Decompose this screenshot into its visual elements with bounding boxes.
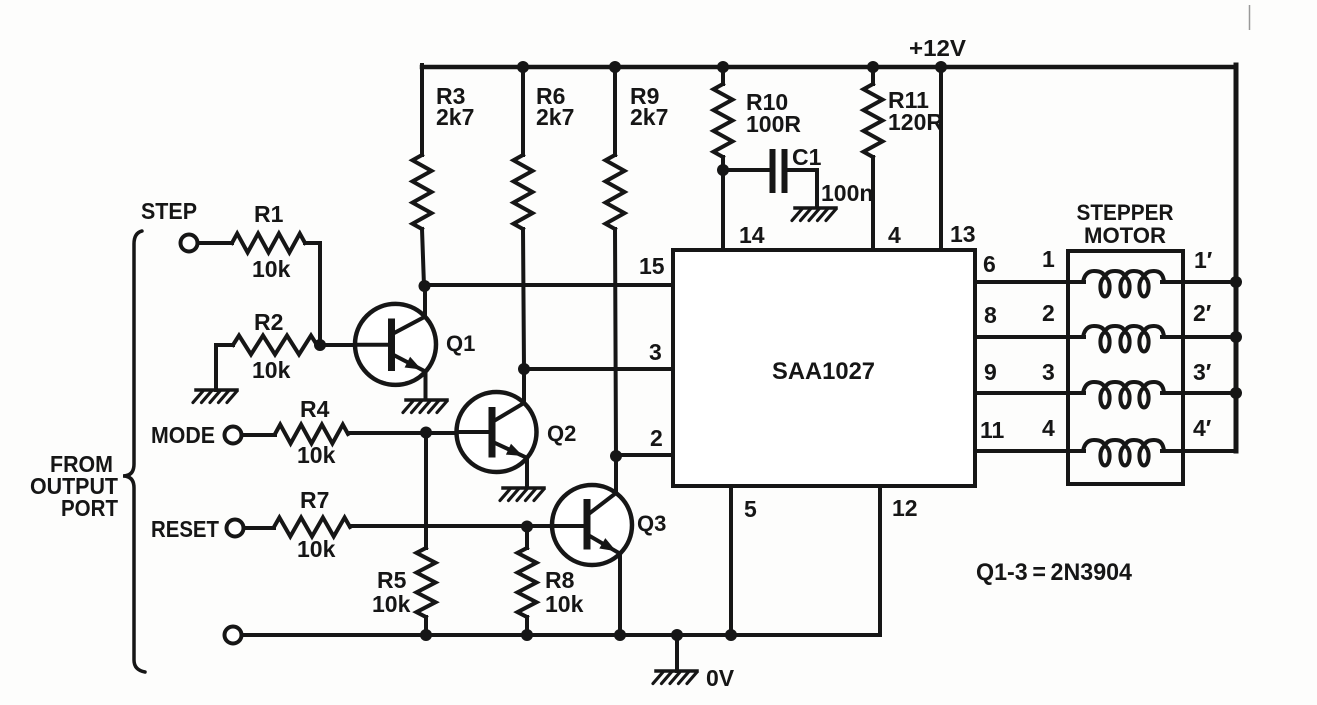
label pin 15 [639, 253, 665, 279]
wire pin 8 to winding 2 [975, 335, 1068, 339]
svg-text:12: 12 [892, 495, 918, 521]
label Q3 [637, 511, 666, 536]
svg-text:100n: 100n [821, 180, 873, 206]
inductor winding 2 [1068, 326, 1183, 352]
label 0V [706, 665, 735, 691]
resistor R10 [714, 84, 733, 157]
inductor winding 1 [1068, 271, 1183, 297]
node 0V junction [671, 629, 683, 641]
svg-text:10k: 10k [372, 591, 411, 617]
label R8 10k [545, 591, 584, 617]
capacitor C1 [773, 152, 785, 190]
wire right supply rail [1234, 65, 1239, 451]
svg-text:120R: 120R [888, 109, 943, 135]
node rail 2' [1230, 331, 1242, 343]
svg-text:PORT: PORT [61, 495, 118, 521]
label 4' [1193, 415, 1212, 441]
label pin 9 [984, 359, 997, 385]
label 3' [1193, 359, 1212, 385]
svg-text:1′: 1′ [1194, 247, 1213, 273]
svg-text:C1: C1 [792, 144, 822, 170]
svg-text:2k7: 2k7 [436, 104, 474, 130]
svg-text:STEPPER: STEPPER [1077, 200, 1174, 225]
svg-text:MOTOR: MOTOR [1084, 223, 1166, 248]
ground Q2 emitter [500, 488, 544, 501]
wire pin 12 [878, 486, 882, 635]
node C1 junction [717, 164, 729, 176]
op-amp U1 SAA1027 body [673, 250, 975, 486]
wire R8 top [525, 527, 529, 548]
label R10 100R [746, 89, 801, 137]
svg-text:0V: 0V [706, 665, 735, 691]
wire R9 column top [613, 67, 617, 155]
transistor Q1 [355, 286, 436, 399]
label winding 4 [1042, 415, 1055, 441]
inductor winding 3 [1068, 382, 1183, 408]
svg-text:MODE: MODE [151, 422, 215, 448]
label R4 [300, 396, 330, 422]
svg-text:2: 2 [650, 425, 663, 451]
label STEP [141, 198, 197, 224]
svg-text:10k: 10k [297, 536, 336, 562]
node Q3 emitter bottom [614, 629, 626, 641]
wire R6 to Q2 collector node [523, 229, 524, 369]
label R5 [377, 567, 407, 593]
svg-text:4: 4 [888, 222, 901, 248]
node RESET/R8 junction [521, 521, 533, 533]
wire pin 15 [424, 283, 673, 287]
svg-text:5: 5 [744, 496, 757, 522]
node R8 bottom [521, 629, 533, 641]
wire R9 to Q3 collector node [615, 229, 616, 456]
label RESET [151, 516, 219, 542]
svg-text:Q1-3 = 2N3904: Q1-3 = 2N3904 [976, 559, 1133, 586]
label +12V [909, 35, 967, 61]
label R2 10k [252, 357, 291, 383]
wire winding 1 to rail [1183, 280, 1236, 284]
svg-text:R2: R2 [254, 309, 283, 335]
label pin 4 [888, 222, 901, 248]
label R6 2k7 [536, 83, 574, 130]
wire 0V stub [675, 635, 679, 671]
label R8 [545, 567, 575, 593]
terminal MODE [225, 427, 242, 444]
label pin 14 [739, 222, 765, 248]
wire R2 ground leg [216, 345, 233, 390]
label Q1 [446, 331, 475, 356]
svg-text:R8: R8 [545, 567, 575, 593]
wire R5 top [424, 433, 428, 548]
transistor Q2 [457, 369, 537, 487]
node R9 top junction [609, 61, 621, 73]
resistor R5 [417, 548, 436, 617]
wire pin 6 to winding 1 [975, 280, 1068, 284]
svg-text:SAA1027: SAA1027 [772, 358, 875, 385]
label R3 2k7 [436, 83, 474, 130]
ground Q1 emitter [403, 400, 447, 413]
node R10 top junction [717, 61, 729, 73]
label R7 [300, 487, 329, 513]
label 1' [1194, 247, 1213, 273]
terminal RESET [227, 520, 244, 537]
motor box [1068, 251, 1183, 484]
resistor R1 [232, 234, 305, 253]
label MODE [151, 422, 215, 448]
terminal common [225, 627, 242, 644]
label pin 13 [950, 221, 976, 247]
wire R10 column top [721, 65, 725, 84]
wire winding 2 to rail [1183, 335, 1236, 339]
node Q1 collector / pin15 [419, 280, 431, 292]
svg-text:2: 2 [1042, 300, 1055, 326]
svg-text:R5: R5 [377, 567, 407, 593]
wire +12V top rail [422, 65, 1236, 70]
svg-text:+12V: +12V [909, 35, 967, 61]
transistor Q3 [552, 456, 632, 635]
svg-text:6: 6 [983, 251, 996, 277]
resistor R4 [275, 425, 348, 444]
node Q1 base junction [314, 339, 326, 351]
wire R8 bottom [525, 617, 529, 635]
label FROM OUTPUT PORT [30, 451, 118, 521]
svg-text:2′: 2′ [1193, 300, 1212, 326]
label pin 8 [984, 302, 997, 328]
label pin 11 [980, 417, 1005, 443]
node rail 3' [1230, 387, 1242, 399]
svg-text:13: 13 [950, 221, 976, 247]
wire R1 to base node [305, 243, 320, 345]
label SAA1027 [772, 358, 875, 385]
wire R7 to Q3 base [350, 524, 555, 528]
inductor winding 4 [1068, 440, 1183, 466]
svg-text:10k: 10k [252, 256, 291, 282]
node R5 bottom [420, 629, 432, 641]
scan artifact top right [1249, 5, 1251, 30]
label R7 10k [297, 536, 336, 562]
wire R3 column top [420, 65, 424, 155]
ground R2 [193, 390, 237, 403]
svg-text:Q2: Q2 [547, 421, 576, 446]
wire C1 right [788, 170, 817, 207]
wire winding 4 to rail [1183, 449, 1236, 453]
node MODE/R5 junction [420, 427, 432, 439]
svg-text:2k7: 2k7 [536, 104, 574, 130]
svg-text:10k: 10k [545, 591, 584, 617]
label R4 10k [297, 442, 336, 468]
node R11 top junction [867, 61, 879, 73]
wire base node to Q1 [320, 343, 362, 347]
svg-text:14: 14 [739, 222, 765, 248]
label R9 2k7 [630, 83, 668, 130]
resistor R8 [518, 548, 537, 617]
wire pin 11 to winding 4 [975, 449, 1068, 453]
ground 0V [653, 671, 697, 684]
svg-text:Q1: Q1 [446, 331, 475, 356]
label R1 10k [252, 256, 291, 282]
svg-text:3′: 3′ [1193, 359, 1212, 385]
label R2 [254, 309, 283, 335]
wire pin 5 [729, 486, 733, 635]
terminal STEP [181, 235, 198, 252]
svg-text:STEP: STEP [141, 198, 197, 224]
resistor R7 [274, 518, 350, 537]
node Q3 collector / pin2 [610, 450, 622, 462]
label Q1-3 = 2N3904 [976, 559, 1133, 586]
label R5 10k [372, 591, 411, 617]
svg-text:9: 9 [984, 359, 997, 385]
wire R11 column top [871, 65, 875, 84]
svg-text:4: 4 [1042, 415, 1055, 441]
svg-text:10k: 10k [252, 357, 291, 383]
ground C1 [792, 208, 836, 221]
node +12V junction [935, 61, 947, 73]
node R6 top junction [517, 61, 529, 73]
label Q2 [547, 421, 576, 446]
svg-text:8: 8 [984, 302, 997, 328]
node Q2 collector / pin3 [518, 363, 530, 375]
label R11 120R [888, 87, 943, 135]
wire STEP to R1 [198, 241, 232, 245]
svg-text:R7: R7 [300, 487, 329, 513]
label 2' [1193, 300, 1212, 326]
wire R5 bottom [424, 617, 428, 635]
resistor R6 [514, 155, 533, 229]
label R1 [254, 201, 284, 227]
label winding 1 [1042, 246, 1055, 272]
wire C1 left [723, 168, 769, 172]
wire R10 to pin 14 [721, 157, 725, 250]
wire MODE to R4 [242, 433, 275, 437]
wire R6 column top [521, 67, 525, 155]
resistor R9 [606, 155, 625, 229]
resistor R2 [233, 336, 317, 355]
wire R3 to Q1 collector node [422, 229, 424, 286]
label pin 2 [650, 425, 663, 451]
wire +12V to pin 13 [939, 67, 943, 250]
svg-text:Q3: Q3 [637, 511, 666, 536]
wire pin 9 to winding 3 [975, 391, 1068, 395]
wire bottom rail [242, 633, 880, 637]
svg-text:2k7: 2k7 [630, 104, 668, 130]
svg-text:RESET: RESET [151, 516, 219, 542]
svg-text:R1: R1 [254, 201, 284, 227]
svg-text:4′: 4′ [1193, 415, 1212, 441]
label pin 5 [744, 496, 757, 522]
brace from output port [123, 231, 145, 672]
wire winding 3 to rail [1183, 391, 1236, 395]
resistor R11 [864, 84, 883, 157]
label winding 3 [1042, 359, 1055, 385]
wire pin 2 [616, 453, 673, 457]
label 100n [821, 180, 873, 206]
wire R11 to pin 4 [871, 157, 875, 250]
svg-text:3: 3 [1042, 359, 1055, 385]
svg-text:R4: R4 [300, 396, 330, 422]
label pin 3 [649, 339, 662, 365]
label STEPPER MOTOR [1077, 200, 1174, 248]
label pin 12 [892, 495, 918, 521]
resistor R3 [413, 155, 432, 229]
node rail 1' [1230, 276, 1242, 288]
wire RESET to R7 [244, 526, 274, 530]
svg-text:3: 3 [649, 339, 662, 365]
svg-text:10k: 10k [297, 442, 336, 468]
label C1 [792, 144, 822, 170]
label winding 2 [1042, 300, 1055, 326]
node pin5 bottom [725, 629, 737, 641]
wire pin 3 [524, 367, 673, 371]
wire R4 to Q2 base [348, 431, 460, 435]
svg-text:11: 11 [980, 417, 1005, 443]
svg-text:15: 15 [639, 253, 665, 279]
svg-text:1: 1 [1042, 246, 1055, 272]
label pin 6 [983, 251, 996, 277]
svg-text:100R: 100R [746, 111, 801, 137]
